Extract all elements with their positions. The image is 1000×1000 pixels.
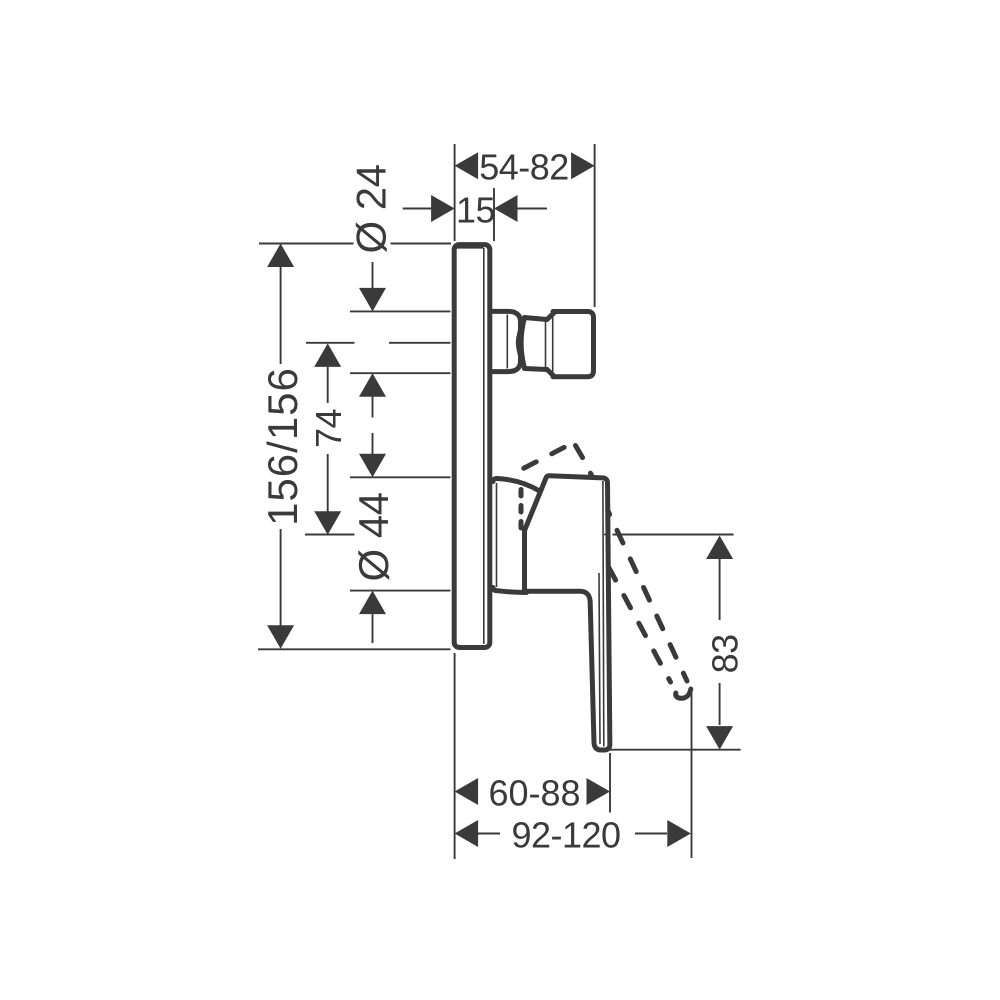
extension line wall face	[493, 188, 495, 241]
dimension 74 up arrow	[314, 343, 341, 367]
extension line plate top right	[391, 243, 452, 245]
svg-text:54-82: 54-82	[479, 147, 569, 188]
extension line cap bottom	[350, 590, 451, 592]
extension line plate bottom	[258, 648, 451, 650]
spout collar inner line	[506, 315, 508, 369]
extension line plate top left	[259, 243, 354, 245]
spout chamfer bottom	[547, 370, 554, 377]
spout end nut	[553, 312, 594, 377]
spout collar	[493, 311, 521, 371]
extension line spout axis right	[389, 342, 451, 344]
dimension 15 right arrow	[494, 195, 518, 222]
dimension D24 upper shaft	[372, 262, 374, 288]
dimension 156/156 lower shaft	[280, 529, 282, 626]
lever body	[525, 476, 610, 750]
dimension 92-120 left shaft	[478, 833, 500, 835]
dimension D24 down arrow	[359, 288, 386, 312]
extension line plate front top	[454, 144, 456, 241]
dimension D44 down arrow	[359, 454, 386, 478]
dashed lever right edge	[576, 446, 688, 682]
dimension 92-120 left arrow	[455, 820, 479, 847]
dimension 15 left leader	[403, 208, 432, 210]
dimension 83 up arrow	[706, 536, 733, 560]
handle axis tick	[604, 534, 610, 536]
handle cap inner line	[496, 483, 498, 587]
dashed lever head top edge	[522, 444, 571, 469]
wall plate inner face line	[483, 248, 485, 644]
extension line lever bottom	[608, 749, 741, 751]
extension line spout top	[350, 310, 451, 312]
dimension D44 lower shaft	[372, 614, 374, 643]
dimension 60-88 right arrow	[587, 778, 611, 805]
extension line cap top	[350, 476, 451, 478]
extension line plate front bottom	[454, 653, 456, 859]
extension line lever edge	[609, 753, 611, 813]
dimension 92-120 right arrow	[667, 820, 691, 847]
extension line dashed lever tip	[691, 693, 693, 858]
dashed lever end cap	[676, 689, 691, 698]
dimension 83 down arrow	[706, 726, 733, 750]
dimension 156/156 up arrow	[267, 244, 294, 268]
spout middle section	[521, 318, 547, 370]
svg-text:Ø 44: Ø 44	[350, 492, 397, 581]
dimension D44 up arrow	[359, 591, 386, 615]
dashed lever head left edge	[519, 487, 524, 528]
dimension 74 upper shaft	[327, 367, 329, 403]
spout chamfer top	[547, 313, 554, 320]
lever inner line left	[599, 573, 600, 744]
svg-text:92-120: 92-120	[511, 814, 620, 855]
dimension D24 lower shaft	[372, 397, 374, 418]
extension line handle axis left	[305, 534, 355, 536]
svg-text:83: 83	[705, 634, 746, 673]
spout nut face line	[552, 313, 554, 375]
dimension 74 down arrow	[314, 511, 341, 535]
handle cap top edge	[493, 478, 540, 491]
dimension 156/156 down arrow	[267, 625, 294, 649]
svg-text:Ø 24: Ø 24	[348, 164, 395, 253]
svg-text:74: 74	[308, 409, 349, 448]
dashed lever left edge	[594, 540, 671, 682]
wall plate inner top line	[457, 247, 484, 249]
extension line spout end	[594, 144, 596, 307]
dimension 83 lower shaft	[719, 683, 721, 725]
dimension 54-82 right arrow	[571, 152, 595, 179]
svg-text:156/156: 156/156	[259, 367, 306, 526]
dimension 74 lower shaft	[327, 454, 329, 512]
extension line spout bottom	[350, 372, 451, 374]
spout middle inner line	[545, 320, 547, 369]
extension line spout axis left	[306, 342, 355, 344]
dimension 60-88 left arrow	[455, 778, 479, 805]
dimension D24 up arrow	[359, 373, 386, 397]
dimension 156/156 upper shaft	[280, 267, 282, 364]
dimension 83 upper shaft	[719, 559, 721, 620]
svg-text:60-88: 60-88	[488, 773, 580, 814]
dimension 54-82 left arrow	[455, 152, 479, 179]
lever inner line right	[602, 481, 605, 747]
dimension D44 upper shaft	[372, 433, 374, 454]
dimension 15 right leader	[518, 208, 548, 210]
dimension 15 left arrow	[431, 195, 455, 222]
wall plate body	[454, 245, 490, 648]
extension line handle axis right	[613, 534, 734, 536]
handle cap bottom edge	[493, 588, 527, 593]
dimension 92-120 right shaft	[635, 833, 667, 835]
svg-text:15: 15	[456, 189, 495, 230]
